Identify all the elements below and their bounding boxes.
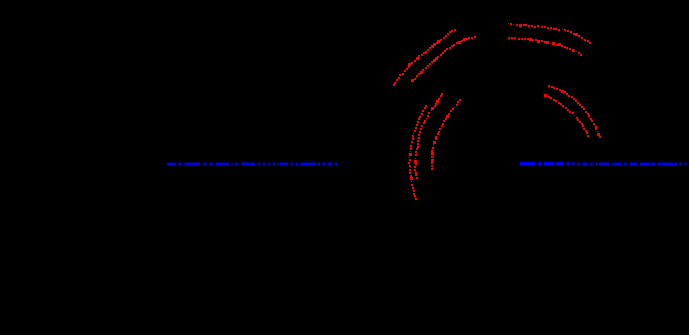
red dotted arc B1 (upper-right outer): [508, 23, 591, 44]
red dotted arc A1 (upper-left outer): [393, 29, 456, 86]
red dotted arc A2 (upper-left inner): [411, 36, 476, 82]
red dotted arc D3 (left steep inner): [431, 99, 461, 170]
blue dashed line segment (right, thin part): [577, 163, 686, 166]
red dotted arc D1 (left steep outer): [408, 105, 427, 200]
blue dashed line segment (right, thick part): [520, 162, 575, 165]
red dotted arc C1 (right outer): [548, 85, 601, 138]
blue dashed line segment (left): [167, 163, 338, 165]
red dotted arc C2 (right inner): [544, 94, 589, 137]
red dotted arc D2 (left steep middle): [414, 93, 443, 179]
red dotted arc B2 (upper-right inner): [508, 37, 582, 56]
